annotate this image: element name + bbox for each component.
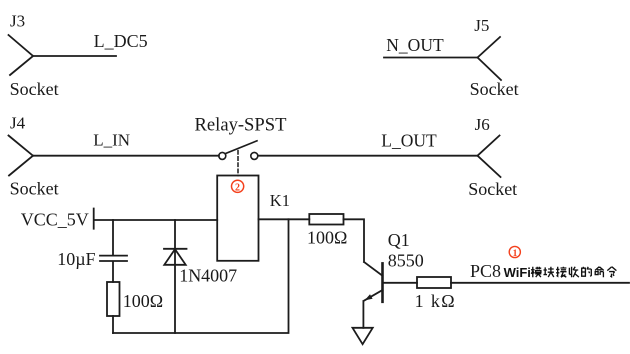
- svg-text:2: 2: [235, 183, 240, 194]
- svg-text:1N4007: 1N4007: [179, 265, 237, 285]
- svg-text:L_IN: L_IN: [93, 131, 130, 150]
- svg-text:Socket: Socket: [10, 79, 59, 99]
- svg-text:J3: J3: [10, 11, 25, 30]
- svg-text:1 kΩ: 1 kΩ: [415, 291, 455, 311]
- svg-text:100Ω: 100Ω: [307, 227, 347, 247]
- svg-text:J6: J6: [475, 115, 490, 134]
- svg-text:Socket: Socket: [468, 179, 517, 199]
- svg-text:WiFi: WiFi: [504, 265, 531, 280]
- svg-text:Relay-SPST: Relay-SPST: [195, 114, 288, 135]
- svg-text:1: 1: [513, 249, 518, 259]
- svg-text:PC8: PC8: [470, 261, 501, 281]
- svg-text:L_OUT: L_OUT: [381, 131, 437, 151]
- svg-text:Socket: Socket: [470, 79, 519, 99]
- svg-text:L_DC5: L_DC5: [94, 31, 148, 51]
- svg-text:8550: 8550: [388, 250, 424, 270]
- svg-text:J4: J4: [10, 113, 26, 132]
- svg-text:Q1: Q1: [388, 230, 410, 250]
- svg-text:Socket: Socket: [10, 179, 59, 199]
- svg-text:N_OUT: N_OUT: [386, 35, 444, 55]
- svg-text:VCC_5V: VCC_5V: [21, 210, 89, 230]
- svg-text:J5: J5: [474, 16, 489, 35]
- svg-text:10µF: 10µF: [57, 249, 95, 269]
- svg-text:K1: K1: [270, 191, 290, 210]
- svg-text:100Ω: 100Ω: [123, 291, 163, 311]
